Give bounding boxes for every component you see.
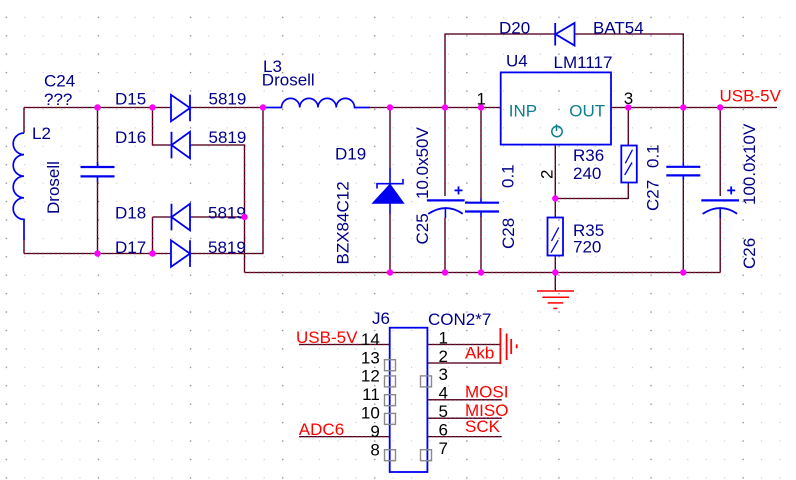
node junction (97.5,253.5) xyxy=(94,250,100,256)
regulator U4 LM1117 xyxy=(501,72,611,144)
node junction (683.3,107.5) xyxy=(680,104,686,110)
svg-text:13: 13 xyxy=(361,348,380,367)
node junction (720.2,107.5) xyxy=(717,104,723,110)
capacitor C26 xyxy=(701,199,739,201)
svg-text:2: 2 xyxy=(439,347,448,366)
node junction (263,107.5) xyxy=(260,104,266,110)
diode D16 xyxy=(172,132,191,159)
resistor R35 xyxy=(548,218,564,256)
zener diode D19 xyxy=(389,168,391,214)
node junction (445,107.5) xyxy=(442,104,448,110)
wire C25 leads xyxy=(444,108,446,273)
svg-text:R36: R36 xyxy=(573,146,604,165)
wire J6 pin4 xyxy=(427,399,501,401)
J6 pin 12 no-connect square xyxy=(385,376,396,387)
svg-text:SCK: SCK xyxy=(465,417,501,436)
wire J6 pin14 xyxy=(299,344,390,346)
wire R36 top lead xyxy=(627,108,629,146)
svg-text:100.0x10V: 100.0x10V xyxy=(740,123,759,205)
svg-text:11: 11 xyxy=(362,385,380,404)
wire J6 pin2 xyxy=(427,362,500,364)
node junction (390,107.5) xyxy=(387,104,393,110)
node junction (445,272.5) xyxy=(442,269,448,275)
wire top rail left xyxy=(24,107,171,109)
svg-text:12: 12 xyxy=(361,367,380,386)
capacitor C27 xyxy=(666,166,700,168)
svg-text:Drosell: Drosell xyxy=(262,71,315,90)
inductor L2 xyxy=(13,133,24,240)
svg-text:MOSI: MOSI xyxy=(465,383,508,402)
svg-text:INP: INP xyxy=(509,102,537,121)
svg-text:C27: C27 xyxy=(644,180,663,211)
wire L3 to U4 INP xyxy=(370,107,501,109)
capacitor C25 xyxy=(427,199,465,201)
wire C28 leads xyxy=(480,108,482,273)
wire J6 pin5 xyxy=(427,417,501,419)
svg-text:1: 1 xyxy=(439,328,448,347)
wire U4 pin2 lead xyxy=(554,145,556,199)
capacitor C28 xyxy=(465,202,499,204)
wire D19 leads xyxy=(389,108,391,273)
svg-text:720: 720 xyxy=(573,238,601,257)
node junction (152.5,107.5) xyxy=(149,104,155,110)
svg-text:???: ??? xyxy=(44,90,72,109)
svg-text:J6: J6 xyxy=(372,309,390,328)
svg-text:5819: 5819 xyxy=(209,90,247,109)
svg-text:CON2*7: CON2*7 xyxy=(428,310,491,329)
wire C24 leads xyxy=(97,108,99,254)
svg-text:10: 10 xyxy=(361,404,380,423)
svg-text:10.0x50V: 10.0x50V xyxy=(413,127,432,199)
svg-text:3: 3 xyxy=(439,365,448,384)
svg-text:BAT54: BAT54 xyxy=(593,19,644,38)
svg-text:C26: C26 xyxy=(740,238,759,269)
svg-text:Akb: Akb xyxy=(465,344,494,363)
node junction (628.3,107.5) xyxy=(625,104,631,110)
svg-text:8: 8 xyxy=(370,440,379,459)
svg-text:D17: D17 xyxy=(115,238,146,257)
svg-text:USB-5V: USB-5V xyxy=(720,87,782,106)
J6 pin 11 no-connect square xyxy=(385,395,396,406)
svg-text:2: 2 xyxy=(538,170,557,179)
node junction (555.3,272.5) xyxy=(552,269,558,275)
J6 pin 7 no-connect square xyxy=(421,450,432,461)
J6 pin 13 no-connect square xyxy=(385,360,396,371)
wire ground stem xyxy=(554,273,556,291)
resistor R36 xyxy=(621,146,637,183)
node junction (390,272.5) xyxy=(387,269,393,275)
wire J6 pin9 xyxy=(299,436,390,438)
svg-text:5819: 5819 xyxy=(209,128,247,147)
diode D17 xyxy=(171,240,190,267)
svg-text:5: 5 xyxy=(439,402,448,421)
battery symbol Akb xyxy=(499,328,501,364)
svg-text:D15: D15 xyxy=(115,90,146,109)
node junction (97.5,107.5) xyxy=(94,104,100,110)
svg-text:Drosell: Drosell xyxy=(44,161,63,214)
svg-text:5819: 5819 xyxy=(208,203,246,222)
wire R35 leads xyxy=(554,199,556,273)
wire OUT rail xyxy=(611,107,777,109)
svg-text:D19: D19 xyxy=(335,145,366,164)
svg-text:D16: D16 xyxy=(115,128,146,147)
wire J6 pin1 xyxy=(427,344,500,346)
wire D18 to node xyxy=(190,216,245,218)
svg-text:C24: C24 xyxy=(44,72,75,91)
svg-text:D20: D20 xyxy=(499,19,530,38)
svg-text:C28: C28 xyxy=(499,218,518,249)
svg-text:L2: L2 xyxy=(32,124,51,143)
wire pin2 to R36 xyxy=(555,183,628,199)
ground xyxy=(537,290,574,292)
capacitor C24 xyxy=(81,166,115,168)
svg-text:C25: C25 xyxy=(413,213,432,244)
svg-text:ADC6: ADC6 xyxy=(299,420,344,439)
wire J6 pin6 xyxy=(427,436,501,438)
connector J6 CON2*7 xyxy=(390,328,428,472)
svg-text:5819: 5819 xyxy=(208,238,246,257)
svg-text:0.1: 0.1 xyxy=(644,144,663,168)
diode D15 xyxy=(171,95,190,122)
J6 pin 10 no-connect square xyxy=(385,413,396,424)
svg-text:BZX84C12: BZX84C12 xyxy=(334,181,353,264)
svg-text:OUT: OUT xyxy=(569,102,605,121)
svg-text:9: 9 xyxy=(370,422,379,441)
svg-text:7: 7 xyxy=(439,439,448,458)
svg-text:6: 6 xyxy=(439,420,448,439)
svg-text:USB-5V: USB-5V xyxy=(296,328,358,347)
node junction (244.5,217) xyxy=(241,214,247,220)
wire ground rail xyxy=(245,272,721,274)
wire bottom-left rail xyxy=(24,253,171,255)
wire D17 up leg xyxy=(190,108,263,254)
svg-text:0.1: 0.1 xyxy=(499,164,518,188)
node junction (555.3,198.5) xyxy=(552,195,558,201)
svg-text:LM1117: LM1117 xyxy=(554,53,613,72)
svg-text:240: 240 xyxy=(573,164,601,183)
node junction (152.5,253.5) xyxy=(149,250,155,256)
svg-text:D18: D18 xyxy=(115,203,146,222)
J6 pin 8 no-connect square xyxy=(385,450,396,461)
svg-text:U4: U4 xyxy=(506,52,528,71)
inductor L3 xyxy=(264,98,370,107)
svg-text:14: 14 xyxy=(361,330,380,349)
diode D18 xyxy=(172,204,191,231)
node junction (481,107.5) xyxy=(478,104,484,110)
wire D18 left leg xyxy=(153,217,172,254)
wire D16 down xyxy=(190,145,245,273)
wire D20 loop xyxy=(445,34,683,108)
J6 pin 3 no-connect square xyxy=(421,376,432,387)
wire C27 leads xyxy=(682,108,684,273)
wire L2 leads xyxy=(23,108,25,254)
node junction (683.3,272.5) xyxy=(680,269,686,275)
node junction (481,272.5) xyxy=(478,269,484,275)
diode D20 BAT54 xyxy=(555,23,574,46)
svg-text:4: 4 xyxy=(439,384,448,403)
wire D15 to L3 node xyxy=(191,107,265,109)
wire C26 leads xyxy=(719,108,721,273)
wire node to D16 xyxy=(153,108,172,146)
U4 ground pin glyph xyxy=(552,126,562,136)
